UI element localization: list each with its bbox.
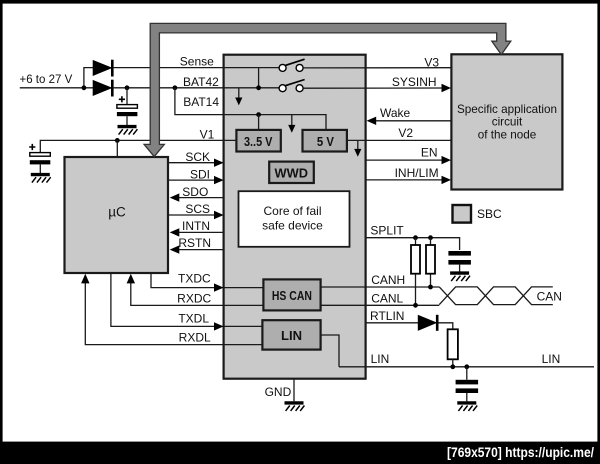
svg-text:LIN: LIN (371, 352, 390, 366)
svg-text:LIN: LIN (542, 352, 561, 366)
wire riser from Sense line to BAT42 line (258, 68, 260, 88)
arrowhead Wake into SBC (367, 117, 377, 125)
svg-text:circuit: circuit (492, 116, 523, 129)
regulator box 5 V (303, 130, 347, 152)
ground below SBC GND pin (285, 403, 305, 411)
wire switch S1 output to V3 (303, 67, 451, 69)
svg-text:RTLIN: RTLIN (370, 309, 404, 323)
wire C4 bottom lead (466, 393, 468, 401)
wire LIN net (321, 335, 594, 367)
arrowhead INTN into uC (170, 228, 180, 236)
wire C1 top lead (126, 88, 128, 105)
wire RSTN (175, 249, 224, 251)
svg-text:RXDL: RXDL (179, 330, 211, 344)
wire RXDL (85, 281, 262, 345)
svg-text:SCS: SCS (185, 202, 210, 216)
wire D3 to resistor R3 (439, 323, 453, 330)
capacitor C1 (117, 105, 137, 117)
svg-text:CANL: CANL (371, 291, 403, 305)
microcontroller block uC (65, 157, 169, 273)
arrowhead SYSINH into application block (442, 84, 452, 92)
wire BAT14 net (175, 88, 326, 130)
arrowhead RSTN into uC (170, 245, 180, 253)
wire GND pin (293, 379, 295, 401)
wire Sense net (114, 67, 279, 69)
wire SDI (168, 179, 216, 181)
wire branch up to diode D1 (84, 68, 93, 88)
wire SCS (168, 214, 216, 216)
svg-text:3..5 V: 3..5 V (244, 134, 273, 149)
wire INH/LIM (366, 179, 444, 181)
svg-text:SPLIT: SPLIT (370, 224, 404, 238)
wire R2 leads (430, 238, 432, 287)
svg-text:GND: GND (265, 385, 292, 399)
diode D3 (418, 315, 437, 331)
arrowhead RXDL into uC (81, 274, 89, 284)
wire R1 leads (415, 238, 417, 306)
legend SBC box (453, 205, 503, 223)
node BAT14 branch junction (173, 85, 178, 90)
wire BAT14 to regulator 3..5 V (258, 115, 260, 130)
ground below C4 (457, 403, 477, 411)
svg-text:Sense: Sense (180, 55, 214, 69)
wire C4 top lead (466, 367, 468, 380)
wire supply input (20, 87, 93, 89)
svg-text:TXDC: TXDC (178, 272, 211, 286)
svg-text:SDI: SDI (190, 168, 210, 182)
svg-text:Core of fail: Core of fail (263, 204, 321, 218)
arrowhead TXDL into SBC (214, 322, 224, 330)
wire CANH (321, 286, 440, 288)
svg-text:INH/LIM: INH/LIM (395, 166, 439, 180)
wire SPLIT (366, 238, 460, 250)
capacitor C3 (448, 251, 471, 265)
wire switch S2 output to SYSINH (303, 87, 444, 89)
arrow internal BAT42 supply down (235, 88, 242, 105)
node riser BAT42 junction (256, 85, 261, 90)
svg-text:V3: V3 (424, 56, 439, 70)
node supply branch junction (82, 85, 87, 90)
svg-text:Wake: Wake (380, 106, 411, 120)
wire C2 bottom lead (39, 164, 41, 173)
svg-text:V1: V1 (200, 127, 215, 141)
diode D2 (93, 80, 112, 97)
wire RXDC (131, 281, 264, 305)
core box Core of fail safe device (239, 191, 350, 247)
ground below C2 (31, 175, 51, 183)
border frame bottom bar (0, 442, 600, 464)
node BAT14 internal junction (256, 112, 261, 117)
svg-text:TXDL: TXDL (178, 311, 209, 325)
wire SCK (168, 162, 216, 164)
arrow internal V2 supply down (354, 140, 361, 156)
arrow internal BAT14 supply down (288, 115, 295, 133)
transceiver box LIN (262, 320, 320, 349)
node C4 LIN junction (464, 364, 469, 369)
border frame right bar (597, 0, 600, 464)
svg-text:[769x570] https://upic.me/: [769x570] https://upic.me/ (447, 445, 594, 461)
application block Specific application circuit of the node (451, 54, 562, 189)
ground below C3 (450, 273, 470, 281)
switch S1 (279, 59, 305, 71)
arrowhead RXDC into uC (127, 274, 135, 284)
resistor R1 (411, 245, 420, 274)
wire Wake (373, 120, 451, 122)
twisted pair CAN bus (439, 287, 553, 305)
svg-text:of the node: of the node (478, 128, 537, 141)
svg-text:BAT14: BAT14 (183, 95, 219, 109)
SBC main block (224, 55, 366, 379)
svg-text:RSTN: RSTN (178, 236, 211, 250)
svg-text:5 V: 5 V (317, 134, 334, 149)
svg-text:V2: V2 (398, 126, 413, 140)
arrowhead INH/LIM into application block (442, 176, 452, 184)
arrowhead SDO into uC (170, 193, 180, 201)
resistor R2 (426, 245, 435, 274)
switch S2 (279, 80, 305, 92)
wire INTN (175, 231, 224, 233)
wire V1 drop to microcontroller (116, 140, 118, 156)
svg-text:INTN: INTN (182, 219, 210, 233)
arrowhead SCK into SBC (214, 159, 224, 167)
svg-text:HS CAN: HS CAN (272, 288, 312, 303)
capacitor C1 polarity plus (119, 96, 125, 102)
svg-text:CAN: CAN (537, 290, 562, 304)
svg-text:SCK: SCK (185, 150, 210, 164)
node SPLIT resistor R2 tap (428, 235, 433, 240)
svg-text:SYSINH: SYSINH (392, 75, 437, 89)
svg-text:SBC: SBC (477, 207, 502, 221)
svg-text:WWD: WWD (275, 166, 309, 181)
wire C3 bottom lead (459, 265, 461, 272)
svg-text:Specific application: Specific application (457, 103, 557, 116)
thick gray feedback arrow (144, 23, 511, 156)
wire BAT42 net (114, 87, 279, 89)
svg-text:µC: µC (108, 205, 126, 220)
border frame top bar (0, 0, 600, 4)
arrowhead EN into application block (442, 156, 452, 164)
node SPLIT resistor R1 tap (413, 235, 418, 240)
wire C1 bottom lead (126, 116, 128, 125)
svg-text:LIN: LIN (281, 328, 302, 343)
regulator box 3..5 V (236, 130, 280, 152)
node R2 CANH junction (428, 285, 433, 290)
border frame left bar (0, 0, 3, 464)
node V1 to microcontroller junction (115, 138, 120, 143)
node capacitor C1 tap (125, 85, 130, 90)
svg-text:RXDC: RXDC (177, 291, 211, 305)
resistor R3 (448, 329, 458, 359)
wire CANL (321, 304, 440, 306)
capacitor C2 polarity plus (29, 144, 35, 150)
node R1 CANL junction (413, 303, 418, 308)
wire V2 (347, 139, 451, 141)
arrowhead SCS into SBC (214, 211, 224, 219)
capacitor C4 (456, 380, 479, 393)
diode D1 (93, 60, 112, 77)
ground below C1 (118, 127, 138, 135)
svg-text:EN: EN (421, 146, 438, 160)
wire SDO (175, 197, 224, 199)
node R3 LIN junction (450, 364, 455, 369)
watchdog box WWD (269, 162, 314, 183)
capacitor C2 (30, 153, 51, 165)
svg-text:CANH: CANH (371, 273, 405, 287)
arrowhead TXDC into SBC (214, 283, 224, 291)
wire EN (366, 159, 444, 161)
svg-text:BAT42: BAT42 (183, 75, 219, 89)
wire TXDL (111, 273, 263, 326)
svg-text:safe device: safe device (262, 218, 323, 232)
wire R3 bottom lead (452, 359, 454, 367)
wire TXDC (151, 273, 263, 288)
transceiver box HS CAN (263, 279, 320, 310)
svg-text:+6 to 27 V: +6 to 27 V (20, 74, 73, 86)
arrowhead SDI into SBC (214, 176, 224, 184)
svg-text:SDO: SDO (182, 185, 208, 199)
wire V1 net (40, 140, 236, 152)
wire RTLIN (366, 322, 418, 324)
